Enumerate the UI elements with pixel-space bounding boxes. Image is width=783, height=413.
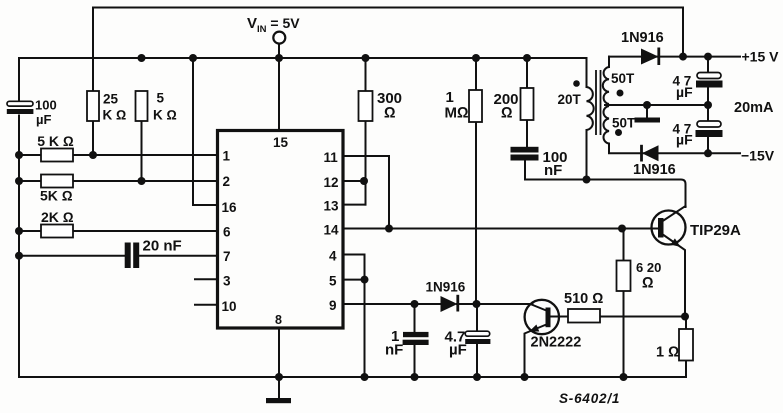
svg-text:510 Ω: 510 Ω [564,291,603,307]
svg-text:8: 8 [275,313,282,327]
resistor R 1M [469,90,482,122]
svg-text:10: 10 [222,299,237,314]
node pin14 / 620 [618,225,626,233]
node pin2 / 5K [138,177,146,185]
wire transformer primary bottom lead [586,130,588,180]
wire pin 14 line [343,228,658,230]
node emitter / 510 / 1ohm [681,313,689,321]
svg-text:6: 6 [223,225,231,240]
svg-text:5: 5 [157,91,165,106]
wire pin 7 line [19,255,218,257]
wire center tap ground stub [646,105,648,118]
capacitor C 100uF [7,101,34,114]
wire pin12-pin13 vertical [365,181,367,205]
svg-text:20 nF: 20 nF [143,237,182,254]
wire pin 4 stub [343,254,365,256]
wire pin 6 line [19,230,218,232]
node -15 rail / cap [704,149,712,157]
wire secondary bottom lead and -15V rail [609,144,740,154]
resistor R 2K (pin6) [41,225,73,238]
node main rail / 1M [472,54,480,62]
svg-text:Ω: Ω [642,275,654,292]
svg-text:K Ω: K Ω [153,108,177,123]
node ground rail pin8 [275,373,283,381]
wire R 1M leads [475,58,477,304]
wire R 300 top lead [365,58,367,91]
diode D 1N916 bottom [642,145,659,162]
resistor R 1ohm [679,329,693,361]
svg-text:1: 1 [446,89,454,106]
svg-text:µF: µF [676,132,693,148]
wire pin 1 line [19,154,218,156]
wire pin 8 to ground rail [278,328,280,377]
svg-text:3: 3 [223,274,231,289]
wire pin 16 line [193,58,218,205]
transformer T1 core [596,70,601,135]
node main rail / Vin [275,54,283,62]
ground at transformer center tap [635,118,661,123]
wire pin 3 stub [195,278,218,280]
resistor R 5K vertical [136,91,148,121]
node pin5 / pin4 bracket [361,276,369,284]
resistor R 200 [521,88,534,120]
wire pin 13 stub [343,204,366,206]
svg-text:S-6402/1: S-6402/1 [559,391,620,406]
wire left ground rail lower [18,116,20,378]
resistor R 25K [87,91,99,121]
wire R 25K bottom lead [92,121,94,155]
resistor R 5K (pin2) [41,175,73,188]
wire TIP29A collector lead [664,206,686,221]
svg-text:12: 12 [324,175,339,190]
wire Vin to pin 15 [278,44,280,131]
svg-text:1 Ω: 1 Ω [656,345,679,361]
resistor R 510 [568,309,600,323]
node primary / 100nF / collector [583,176,591,184]
wire R 200 leads [526,58,528,147]
svg-text:9: 9 [329,298,337,313]
IC U1 box (16-pin converter IC) [218,131,344,329]
node left rail pin2 [15,177,23,185]
node pin12 / 300 [360,177,368,185]
wire output caps chain [707,57,709,154]
transistor Q1 2N2222 [525,300,559,334]
svg-text:2N2222: 2N2222 [531,335,582,351]
svg-text:MΩ: MΩ [445,105,469,122]
svg-text:100: 100 [35,98,57,113]
node center tap / ground [643,101,651,109]
node main rail / pin16 [189,54,197,62]
transformer T1 primary winding 20T [587,87,594,130]
ground bottom center [266,398,291,403]
svg-text:4: 4 [329,249,337,264]
svg-text:2K Ω: 2K Ω [41,209,74,225]
wire +15V rail [609,56,740,58]
node diode / 4.7uF / 1M [473,300,481,308]
capacitor C 4.7uF bottom [696,121,723,137]
svg-text:25: 25 [103,91,119,106]
capacitor C 20nF [125,243,140,269]
svg-text:VIN = 5V: VIN = 5V [247,15,300,35]
wire top rail [93,8,683,92]
wire 2N2222 emitter lead [525,324,548,377]
wire ground stub bottom [278,377,280,398]
capacitor C 1nF [403,332,429,345]
svg-text:11: 11 [324,150,339,165]
node +15 rail / top line [679,53,687,61]
wire pin 12 stub [343,180,366,182]
transformer polarity dot secondary bottom [615,129,622,136]
svg-text:20T: 20T [558,92,582,107]
node +15 rail / cap [704,53,712,61]
transformer T1 secondary top 50T [603,67,609,104]
svg-text:50T: 50T [611,71,635,86]
wire main 5V rail [19,57,587,59]
svg-text:+15 V: +15 V [742,49,780,65]
wire 510 net [551,316,686,318]
wire R 300 bottom lead [365,121,367,181]
transistor Q2 TIP29A [652,211,686,247]
node left rail pin1 [15,151,23,159]
svg-text:7: 7 [223,249,231,264]
diode D 1N916 mid [441,295,458,312]
node left rail pin7 [15,252,23,260]
transformer polarity dot primary [573,80,580,87]
svg-text:µF: µF [676,84,693,100]
resistor R 620 [617,261,631,292]
svg-text:5K Ω: 5K Ω [40,188,73,204]
wire 2N2222 collector diagonal [532,305,548,312]
wire R 5K vertical bottom lead [141,121,143,181]
wire C 4.7uF mid leads [476,304,478,377]
diode D 1N916 top [641,48,659,66]
node ground rail 4.7uF [473,373,481,381]
wire pin 5 stub [343,279,365,281]
wire left ground rail upper [18,58,20,102]
pin numbers [222,135,340,327]
node ground rail 620 [620,373,628,381]
capacitor C 4.7uF top [696,73,723,88]
svg-text:5: 5 [329,274,337,289]
svg-text:Ω: Ω [384,105,396,122]
wire TIP29A emitter lead [664,235,686,317]
svg-text:1N916: 1N916 [621,30,664,46]
wire transformer primary top lead [586,58,588,87]
terminal Vin [273,32,285,44]
transformer polarity dot secondary top [617,90,624,97]
node pin1 / 25K [89,151,97,159]
svg-text:K Ω: K Ω [103,108,127,123]
node pin9 / 1nF [411,300,419,308]
svg-text:20mA: 20mA [734,100,774,116]
svg-text:5 K Ω: 5 K Ω [37,133,74,149]
svg-text:TIP29A: TIP29A [690,222,741,239]
node ground rail pin4-5 [361,373,369,381]
node ground rail 2N2222 emitter [521,373,529,381]
svg-text:1: 1 [223,149,231,164]
node main rail / 300 [362,54,370,62]
capacitor C 100nF [511,147,539,161]
svg-text:nF: nF [385,342,403,359]
svg-text:6 20: 6 20 [636,260,661,275]
capacitor C 4.7uF mid [465,331,490,344]
node main rail / 200 [523,54,531,62]
wire C 1nF leads [414,304,416,377]
wire pin 9 line [343,303,533,305]
wire pin 2 line [19,180,218,182]
svg-text:15: 15 [273,135,289,150]
svg-text:nF: nF [544,162,562,179]
svg-text:µF: µF [449,342,467,359]
wire C 100nF to primary and TIP29A collector [525,161,686,208]
svg-text:16: 16 [222,200,238,215]
svg-text:1N916: 1N916 [426,280,466,295]
wire secondary top lead [608,57,610,67]
wire bottom ground rail [19,376,686,378]
node left rail pin6 [15,227,23,235]
wire pin 10 stub [195,304,218,306]
wire R 620 leads [623,229,625,378]
node main rail / 5K [138,54,146,62]
transformer T1 secondary bottom 50T [603,106,609,144]
svg-text:Ω: Ω [501,105,513,122]
svg-text:1N916: 1N916 [633,162,676,178]
wire pin4-pin5 to ground [364,255,366,378]
svg-text:50T: 50T [612,116,636,131]
svg-text:−15V: −15V [741,148,775,164]
resistor R 5K (pin1) [41,149,73,162]
node center tap / caps [704,101,712,109]
svg-text:13: 13 [324,199,340,214]
wire pin 11 to pin 14 [343,156,389,229]
node ground rail 1nF [411,373,419,381]
wire secondary center tap [605,104,708,106]
svg-text:14: 14 [324,223,340,238]
svg-text:2: 2 [223,174,231,189]
svg-text:µF: µF [36,112,51,127]
node pin11 / pin14 [385,225,393,233]
wire R 1ohm leads [685,317,687,378]
resistor R 300 [359,91,373,121]
